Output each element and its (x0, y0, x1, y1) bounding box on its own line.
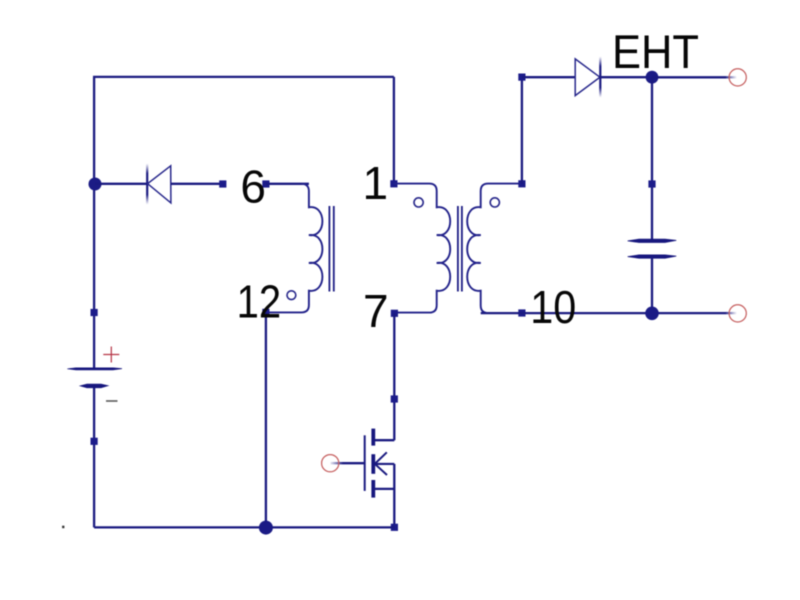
transformer T1 primary winding (pins 1-7) (394, 184, 450, 313)
secondary polarity dot (490, 198, 499, 207)
diode D2 cathode bar (599, 57, 601, 98)
feedback winding polarity dot (287, 291, 296, 300)
pin 1 square (primary top) (390, 180, 397, 187)
transistor Q1 drain horizontal lead (373, 439, 394, 441)
wire diode D2 to EHT node (600, 76, 652, 78)
transformer T1 secondary winding (top pin - pin 10) (467, 184, 522, 313)
inductor feedback winding (pins 6-12) (266, 184, 322, 313)
wire pin 6 to feedback winding (266, 183, 309, 185)
wire top horizontal (93, 76, 394, 78)
diode D1 cathode bar (146, 164, 148, 205)
wire EHT node down to capacitor C1 (651, 77, 653, 239)
pin 10 square (518, 309, 525, 316)
node EHT junction dot (646, 71, 659, 84)
transistor Q1 channel bar middle (371, 454, 375, 474)
battery B1 minus sign (106, 400, 118, 402)
pin square capacitor C1 top (648, 180, 655, 187)
diode D2 triangle (pointing right) (575, 59, 600, 96)
pin square battery top (91, 309, 98, 316)
wire gate lead (331, 462, 365, 464)
svg-text:6: 6 (240, 160, 266, 212)
pin square battery bottom (91, 438, 98, 445)
transformer T1 core line 2 (461, 206, 463, 292)
terminal return output (open circle) (729, 305, 746, 322)
wire left vertical upper (battery + rail) (93, 77, 95, 368)
wire pin 10 to return terminal (481, 312, 726, 314)
pin 6 square (feedback winding top) (262, 180, 269, 187)
wire drop to transformer pin 1 (393, 77, 395, 184)
wire pin 12 down to ground rail (265, 312, 267, 527)
node ground junction dot (259, 521, 273, 535)
wire source down to ground rail (393, 464, 395, 528)
battery B1 negative plate (short thick) (81, 384, 108, 387)
feedback winding core line 2 (333, 206, 335, 292)
node return junction dot (645, 307, 659, 321)
capacitor C1 top plate (628, 239, 677, 242)
transistor Q1 body arrow head upper (375, 452, 387, 464)
wire diode D1 to pin 6 (171, 183, 222, 185)
wire pin 7 down to transistor Q1 drain (393, 313, 395, 440)
wire left vertical lower (battery - to ground rail) (93, 386, 95, 527)
wire capacitor C1 bottom to return node (651, 257, 653, 313)
terminal gate drive (open red circle) (322, 455, 339, 472)
pin square source at ground rail (391, 524, 398, 531)
pin 7 square (391, 310, 398, 317)
wire riser to diode D2 (522, 76, 575, 78)
feedback winding core line 1 (328, 206, 330, 292)
svg-text:10: 10 (530, 281, 576, 333)
wire EHT node to output terminal (652, 76, 726, 78)
wire ground rail (bottom) (94, 526, 394, 528)
stray dot artifact bottom-left (62, 526, 64, 529)
pin square riser top (518, 74, 525, 81)
svg-text:1: 1 (363, 157, 389, 209)
svg-text:12: 12 (237, 275, 282, 327)
wire secondary top vertical riser (521, 77, 523, 184)
node A junction dot (left rail / diode anode) (89, 178, 102, 191)
pin end square (diode D1 right end) (219, 180, 226, 187)
transistor Q1 source horizontal lead (373, 488, 394, 490)
transistor Q1 channel bar top (371, 429, 375, 446)
svg-text:EHT: EHT (612, 26, 699, 79)
battery B1 positive plate (long) (67, 368, 122, 370)
transistor Q1 body arrow head lower (375, 464, 387, 475)
pin square secondary top (518, 180, 525, 187)
diode D1 triangle (pointing left) (148, 166, 171, 203)
transistor Q1 body arrow shaft (375, 463, 395, 465)
wire junction to diode D1 (95, 183, 147, 185)
capacitor C1 bottom plate (628, 255, 677, 258)
battery B1 plus sign (103, 347, 119, 363)
transformer T1 core line 1 (457, 206, 459, 292)
transistor Q1 gate line (364, 435, 366, 491)
pin 12 square (262, 309, 269, 316)
pin square transistor Q1 drain (391, 395, 398, 402)
primary polarity dot (414, 198, 423, 207)
terminal EHT output (open circle) (729, 69, 746, 86)
svg-text:7: 7 (363, 285, 389, 337)
transistor Q1 channel bar bottom (371, 480, 375, 498)
